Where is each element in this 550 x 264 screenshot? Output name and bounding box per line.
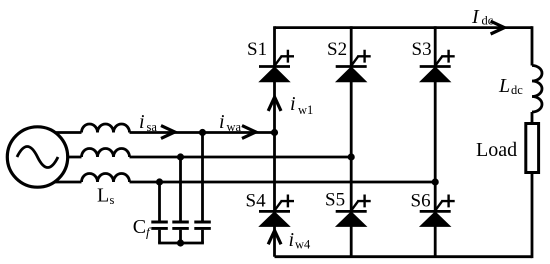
wire right edge upper segment [531,26,534,65]
svg-text:Load: Load [476,139,517,161]
node capacitor star point [177,239,184,246]
wire bridge leg 3 [434,26,437,257]
svg-text:S2: S2 [327,39,347,60]
inductor Ls phase A coil [82,124,130,133]
arrow i_w4 on leg 1 [268,231,281,245]
wire right edge lower segment [531,173,534,259]
svg-text:S1: S1 [247,39,267,60]
wire phase C line [30,181,435,184]
wire bottom dc bus [275,255,533,258]
node phase B / leg 2 junction [348,153,355,160]
svg-text:sa: sa [147,120,158,134]
svg-text:C: C [133,216,146,238]
AC source circle [7,127,67,187]
svg-text:i: i [219,111,225,133]
capacitor Cf 2 bottom lead [179,230,182,243]
thyristor S4 [259,195,294,227]
svg-text:I: I [471,6,480,28]
wire bridge leg 2 [350,26,353,257]
svg-text:S3: S3 [412,39,432,60]
node capacitor 1 tap on phase C [156,178,163,185]
svg-text:w4: w4 [295,238,311,252]
capacitor Cf 3 plates [194,222,211,228]
svg-text:f: f [146,225,152,240]
capacitor Cf 1 top lead [158,182,161,221]
svg-text:i: i [290,93,296,115]
wire right edge between coil and load [531,112,534,124]
svg-text:dc: dc [482,14,494,28]
load resistor box [526,124,539,173]
AC source sine wave [17,147,58,168]
wire bridge leg 1 [273,26,276,257]
capacitor Cf 2 top lead [179,157,182,221]
node capacitor 3 tap on phase A [199,129,206,136]
inductor Ls phase B coil [82,149,130,158]
thyristor S6 [420,195,455,227]
arrow i_wa on phase A [242,126,256,139]
svg-text:wa: wa [227,120,242,134]
capacitor Cf 1 plates [151,222,168,228]
thyristor S2 [336,50,371,82]
svg-text:i: i [289,229,295,251]
svg-text:dc: dc [511,83,523,97]
thyristor S3 [420,50,455,82]
svg-text:w1: w1 [298,103,313,117]
inductor Ldc coil [532,66,542,113]
wire phase A line [30,131,275,134]
wire phase B line [30,156,351,159]
arrow i_sa on phase A [161,126,175,139]
node capacitor 2 tap on phase B [177,153,184,160]
capacitor Cf 2 plates [172,222,189,228]
thyristor S5 [336,195,371,227]
svg-text:S5: S5 [325,190,345,211]
node phase C / leg 3 junction [432,178,439,185]
svg-text:S6: S6 [411,191,431,212]
svg-text:L: L [498,75,510,97]
capacitor Cf 1 bottom lead [158,230,161,243]
wire top dc bus [275,26,533,29]
arrow i_w1 on leg 1 [268,97,281,111]
svg-text:s: s [110,193,115,207]
capacitor Cf 3 top lead [201,133,204,221]
thyristor S1 [259,50,294,82]
arrow I_dc on top bus [491,21,505,34]
capacitor Cf 3 bottom lead [201,230,204,243]
svg-text:L: L [97,185,109,207]
svg-text:S4: S4 [246,191,267,212]
svg-text:i: i [139,111,145,133]
inductor Ls phase C coil [82,174,130,183]
node phase A / leg 1 junction [271,129,278,136]
wire capacitor star bar [158,242,204,245]
